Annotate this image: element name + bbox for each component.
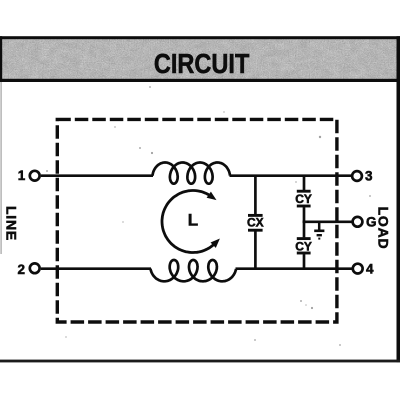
coupling arrowhead lower xyxy=(211,239,220,248)
wire top right (choke to terminal 3) xyxy=(230,174,353,177)
wire top left (terminal 1 to choke) xyxy=(41,174,153,177)
capacitor CY2 top plate xyxy=(297,237,311,240)
svg-text:CY: CY xyxy=(295,192,312,206)
svg-text:1: 1 xyxy=(18,168,26,183)
svg-text:CX: CX xyxy=(247,216,264,230)
header bar grey fill xyxy=(0,38,397,80)
terminal G circle xyxy=(353,217,363,227)
svg-text:4: 4 xyxy=(366,261,374,276)
page bottom border xyxy=(0,360,400,363)
coupling arrow circle xyxy=(162,191,215,253)
svg-text:2: 2 xyxy=(17,262,25,277)
coupling arrowhead upper xyxy=(207,192,217,201)
capacitor CY1 top plate xyxy=(297,190,311,193)
capacitor CX wire lower xyxy=(254,231,257,268)
page left faint border xyxy=(0,82,1,254)
svg-text:CIRCUIT: CIRCUIT xyxy=(154,48,250,79)
svg-text:3: 3 xyxy=(365,168,373,183)
wire bottom left (terminal 2 to choke) xyxy=(41,267,151,270)
svg-text:G: G xyxy=(366,215,377,230)
header bar top border xyxy=(0,36,400,39)
scan specks xyxy=(46,86,371,346)
svg-text:CY: CY xyxy=(295,239,312,253)
capacitor CX wire upper xyxy=(254,176,257,215)
capacitor CY1 bottom plate xyxy=(297,205,311,208)
header bar left border xyxy=(0,36,2,81)
terminal 1 circle xyxy=(30,171,40,181)
ground bar 3 xyxy=(318,238,320,240)
header bar bottom border xyxy=(0,79,400,82)
wire ground mid (junction to terminal G) xyxy=(303,220,353,223)
page right border xyxy=(397,36,400,362)
terminal 2 circle xyxy=(30,263,40,273)
ground stub xyxy=(318,222,321,230)
capacitor CY1 wire upper xyxy=(303,176,306,190)
capacitor CY1 wire lower to junction xyxy=(303,207,306,223)
inductor L top winding xyxy=(153,163,231,184)
capacitor CY2 wire upper from junction xyxy=(303,221,306,238)
ground bar 2 xyxy=(317,234,322,236)
inductor L bottom winding xyxy=(151,260,237,281)
terminal 4 circle xyxy=(353,264,363,274)
wire bottom right (choke to terminal 4) xyxy=(236,267,353,270)
dashed enclosure box xyxy=(57,119,337,322)
capacitor CX bottom plate xyxy=(248,229,263,232)
ground bar 1 xyxy=(314,230,324,233)
capacitor CY2 bottom plate xyxy=(297,252,311,255)
capacitor CY2 wire lower xyxy=(303,254,306,269)
terminal 3 circle xyxy=(352,171,362,181)
svg-text:LINE: LINE xyxy=(3,206,19,241)
capacitor CX top plate xyxy=(248,214,263,217)
svg-text:LOAD: LOAD xyxy=(376,207,392,250)
svg-text:L: L xyxy=(188,211,198,230)
